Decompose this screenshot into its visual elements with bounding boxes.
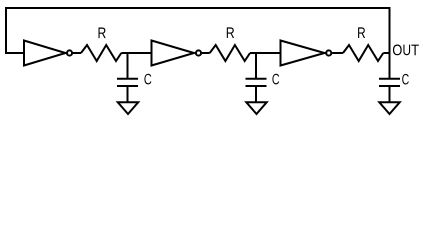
wire U2 output to R2 (202, 52, 210, 54)
label C1 (144, 74, 151, 85)
ground (118, 102, 138, 114)
node OUT label, letter T (411, 45, 418, 56)
wire C1 top lead (127, 52, 129, 78)
wire C3 bottom lead (389, 86, 391, 102)
wire U1 output to R1 (73, 52, 81, 54)
node bubble U3 output (326, 50, 331, 55)
capacitor C3 (379, 79, 400, 86)
wire R3 to OUT node (383, 52, 389, 54)
resistor R2 (210, 45, 250, 61)
label R1 (99, 28, 106, 39)
wire C2 top lead (255, 52, 257, 78)
wire R1 to U2 input (through node) (121, 52, 151, 54)
wire C2 bottom lead (255, 86, 257, 102)
node bubble U1 output (67, 50, 72, 55)
op-amp U1 inverter triangle (24, 41, 66, 66)
capacitor C1 (117, 79, 138, 86)
resistor R1 (81, 45, 121, 61)
node bubble U2 output (196, 50, 201, 55)
wire R2 to U3 input (through node) (250, 52, 281, 54)
resistor R3 (343, 45, 383, 61)
op-amp U3 inverter triangle (281, 41, 325, 66)
op-amp U2 inverter triangle (152, 41, 195, 66)
wire C3 top lead (389, 53, 391, 78)
label C3 (402, 74, 409, 85)
node OUT label, letter U (403, 45, 410, 56)
label C2 (272, 74, 279, 85)
ground (246, 102, 266, 114)
label R3 (358, 27, 365, 38)
node OUT label, letter O (393, 45, 402, 56)
capacitor C2 (246, 79, 267, 86)
ground (379, 102, 399, 114)
wire C1 bottom lead (127, 86, 129, 102)
wire U3 output to R3 (332, 52, 343, 54)
label R2 (227, 27, 234, 38)
wire feedback loop (OUT node up, across top, down to U1 input) (6, 8, 390, 53)
